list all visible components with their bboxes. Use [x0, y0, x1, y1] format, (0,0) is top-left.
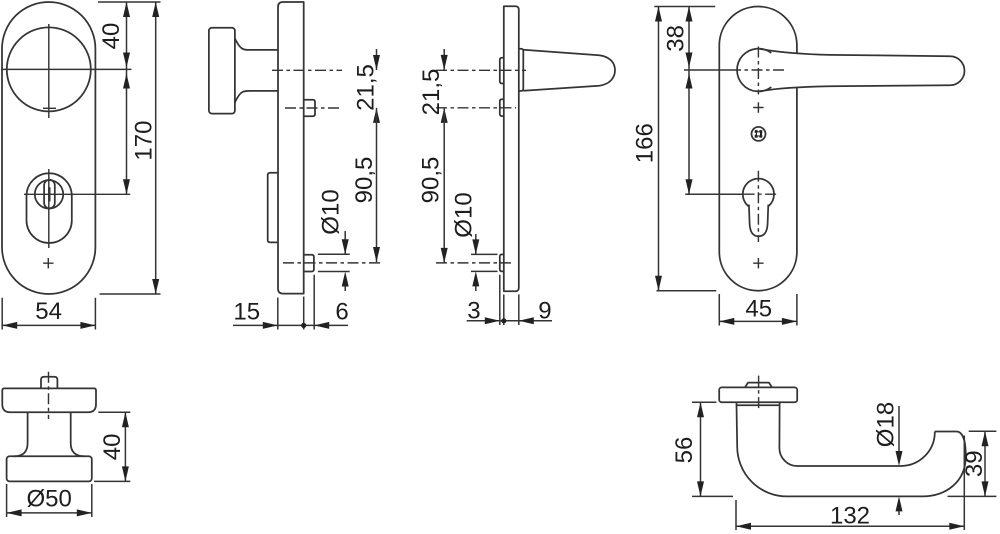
- dimension 3 and 9 extension lines view3: [500, 275, 519, 325]
- dimension 132 line view6: [736, 525, 964, 527]
- key slot bar: [48, 187, 50, 201]
- plate outline view1: [2, 2, 95, 294]
- spindle cross mark view4: [753, 102, 763, 112]
- screw centerline view3: [436, 262, 511, 264]
- screw centerline view2: [283, 262, 381, 264]
- extension line plate bottom view1: [100, 293, 161, 295]
- svg-text:21,5: 21,5: [353, 64, 380, 111]
- svg-text:38: 38: [662, 25, 689, 52]
- svg-text:21,5: 21,5: [418, 69, 445, 116]
- knob rose flange view5: [2, 388, 96, 412]
- svg-text:15: 15: [233, 298, 260, 325]
- knob neck left edge view5: [14, 412, 28, 456]
- svg-text:90,5: 90,5: [351, 157, 378, 204]
- knob centerline view5: [48, 372, 50, 419]
- key slot: [44, 180, 55, 209]
- svg-text:6: 6: [335, 298, 348, 325]
- svg-text:45: 45: [745, 296, 772, 323]
- lever hub circle view4: [737, 49, 771, 92]
- dimension 40 line view1: [126, 2, 128, 194]
- dimension 45 extension lines: [719, 294, 797, 326]
- svg-text:170: 170: [131, 121, 158, 161]
- fixing cross mark view1: [43, 258, 53, 268]
- screw bush tab view2: [304, 255, 314, 272]
- dimension 54 line: [2, 324, 95, 326]
- spindle centerline view2: [285, 107, 342, 109]
- lever inner edge view6: [779, 405, 934, 466]
- dimension 54 extension lines: [2, 298, 95, 330]
- plate outline view4: [719, 7, 797, 291]
- svg-text:9: 9: [538, 297, 551, 324]
- lever hub band view3: [519, 49, 524, 91]
- svg-text:Ø10: Ø10: [318, 189, 345, 234]
- hub axis centerline view4: [684, 69, 730, 71]
- svg-text:Ø50: Ø50: [27, 486, 72, 513]
- dimension 45 line: [719, 320, 797, 322]
- svg-text:56: 56: [671, 437, 698, 464]
- diameter 10 extension lines view2: [318, 254, 350, 271]
- spindle bush tab view2: [304, 100, 315, 117]
- lever grip cone view3: [523, 50, 615, 91]
- svg-text:90,5: 90,5: [418, 157, 445, 204]
- dimension 56 line view6: [700, 402, 702, 496]
- dimension 170 line view1: [155, 2, 157, 294]
- plate outline view2: [278, 2, 304, 294]
- lever body outline view6: [737, 405, 966, 496]
- dimension 132 extension lines view6: [736, 436, 964, 531]
- spindle centerline view3: [436, 107, 516, 109]
- dimension 15 and 6 extension lines view2: [278, 275, 314, 330]
- svg-text:40: 40: [99, 434, 126, 461]
- dimension 166 line: [658, 7, 660, 291]
- extension line plate top view4: [654, 6, 715, 8]
- hub vertical centerline view4: [757, 47, 759, 95]
- cylinder circle view4: [743, 179, 774, 210]
- cylinder horizontal centerline view4: [685, 193, 743, 195]
- cylinder circle: [35, 180, 63, 208]
- plate outline view3: [504, 6, 519, 291]
- svg-text:3: 3: [467, 297, 480, 324]
- svg-text:Ø10: Ø10: [451, 192, 478, 237]
- dimension diameter 50 extension lines: [7, 484, 92, 517]
- screw bush tab view3: [500, 254, 504, 271]
- knob head view2: [209, 28, 235, 114]
- lever arm view4: [760, 49, 965, 92]
- dimension 15 and 6 line view2: [233, 324, 348, 326]
- knob horizontal centerline: [1, 68, 132, 70]
- cylinder vertical centerline view4: [757, 171, 759, 242]
- cylinder oval escutcheon: [27, 173, 72, 243]
- diameter 10 dimension line view3: [475, 234, 477, 291]
- knob axis centerline view2: [272, 69, 342, 71]
- dimension 38 line: [688, 7, 690, 195]
- spindle tick mark: [43, 107, 56, 109]
- svg-text:132: 132: [830, 502, 870, 529]
- lever axis centerline view3: [436, 69, 526, 71]
- svg-text:40: 40: [98, 23, 125, 50]
- fixing cross mark view4: [753, 258, 763, 268]
- dimension 21,5 line view2: [376, 49, 378, 70]
- knob rose circle: [7, 27, 91, 111]
- dimension 90,5 line view2: [376, 108, 378, 262]
- knob spindle tab view5: [41, 377, 57, 389]
- screw view4: [752, 127, 766, 141]
- lever centerline view6: [758, 376, 760, 411]
- knob neck top edge: [235, 39, 278, 50]
- diameter 10 extension lines view3: [471, 254, 498, 271]
- diameter 10 dimension line view2: [344, 231, 346, 291]
- cylinder key slot view4: [749, 205, 768, 237]
- dimension 3 and 9 line view3: [467, 320, 552, 322]
- dimension 40 extension lines view5: [94, 412, 130, 481]
- dimension 21,5 line view3: [443, 49, 445, 70]
- hub bush tab view3: [500, 58, 504, 84]
- dimension 90,5 line view3: [443, 108, 445, 263]
- dimension 39 line view6: [984, 431, 986, 496]
- extension line plate top view1: [98, 1, 161, 3]
- dimension 56 extension lines view6: [692, 402, 733, 496]
- lever spindle tab view6: [745, 383, 772, 388]
- dimension diameter 18 line view6: [898, 406, 900, 515]
- spindle bush tab view3: [500, 99, 504, 116]
- lever neck band view6: [737, 402, 780, 405]
- cylinder vertical centerline: [48, 169, 50, 248]
- dimension 40 line view5: [124, 412, 126, 481]
- dimension 39 extension lines view6: [948, 431, 997, 496]
- svg-text:Ø18: Ø18: [873, 402, 900, 447]
- extension line plate bottom view4: [657, 290, 717, 292]
- svg-text:54: 54: [35, 298, 62, 325]
- cylinder cover bump view2: [268, 173, 279, 243]
- knob neck right edge view5: [71, 412, 85, 456]
- knob neck bottom edge: [235, 91, 278, 102]
- lever rose disc view6: [719, 387, 797, 402]
- svg-text:166: 166: [631, 123, 658, 163]
- knob vertical centerline: [48, 24, 50, 118]
- knob base view5: [7, 456, 92, 481]
- dimension diameter 50 line: [7, 512, 92, 514]
- cylinder horizontal centerline: [24, 193, 130, 195]
